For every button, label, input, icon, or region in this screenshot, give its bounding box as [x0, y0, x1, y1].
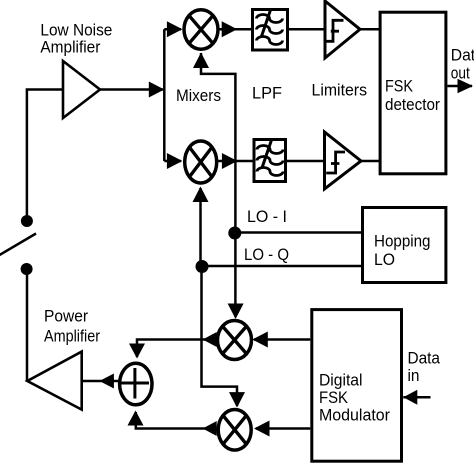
svg-text:LPF: LPF [252, 84, 282, 102]
svg-text:Limiters: Limiters [312, 81, 368, 99]
svg-text:Data: Data [451, 47, 474, 65]
svg-text:out: out [451, 65, 470, 83]
svg-text:Low Noise: Low Noise [40, 22, 112, 40]
svg-text:Digital: Digital [319, 371, 363, 389]
svg-text:FSK: FSK [385, 77, 413, 95]
svg-text:detector: detector [385, 96, 441, 114]
svg-text:Amplifier: Amplifier [44, 327, 100, 345]
svg-text:Data: Data [408, 349, 441, 367]
svg-text:LO - I: LO - I [247, 208, 287, 226]
svg-text:FSK: FSK [319, 389, 348, 407]
svg-text:Modulator: Modulator [319, 407, 391, 425]
svg-text:Hopping: Hopping [374, 233, 431, 251]
svg-text:Power: Power [44, 307, 89, 325]
svg-text:Mixers: Mixers [176, 87, 221, 105]
svg-text:Amplifier: Amplifier [40, 39, 101, 57]
svg-text:in: in [408, 367, 420, 385]
svg-text:LO: LO [374, 251, 395, 269]
svg-text:LO - Q: LO - Q [244, 246, 289, 264]
